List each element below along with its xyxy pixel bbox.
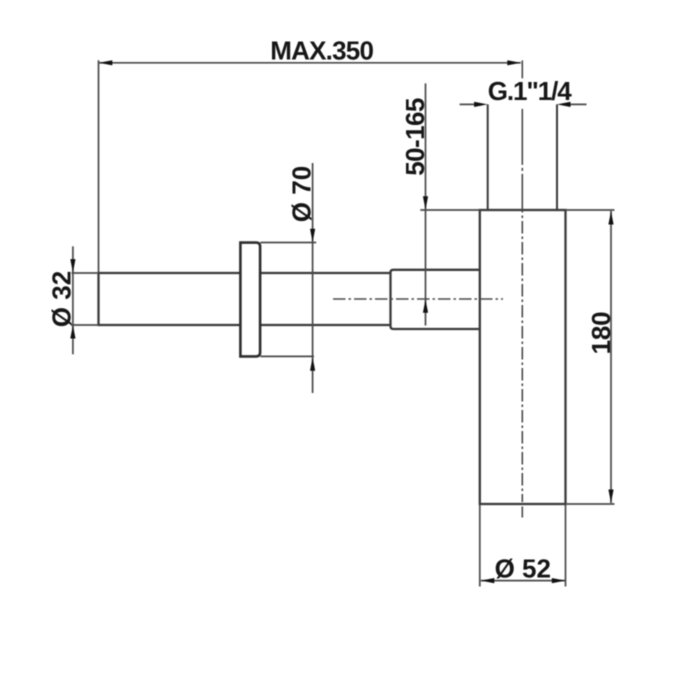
svg-text:MAX.350: MAX.350 — [270, 36, 373, 66]
arrowhead G left — [474, 102, 488, 107]
extension line body top right — [566, 209, 615, 211]
extension line pipe top left — [72, 272, 99, 274]
arrowhead MAX.350 right — [507, 60, 521, 65]
dimension line MAX.350 — [99, 62, 521, 64]
dimension line diameter 52 — [481, 580, 566, 582]
inlet tube left edge — [487, 104, 489, 210]
arrowhead 180 top — [608, 211, 613, 225]
label diameter 70 — [286, 166, 316, 222]
svg-text:50-165: 50-165 — [400, 98, 430, 176]
extension line body left lower — [479, 505, 481, 587]
label MAX.350 — [270, 36, 373, 66]
svg-text:G.1"1/4: G.1"1/4 — [488, 76, 572, 106]
arrowhead 50-165 down — [423, 196, 428, 210]
wall pipe top edge right segment — [260, 272, 390, 274]
extension line pipe bottom left — [71, 324, 99, 326]
wall pipe left end edge — [97, 272, 99, 326]
label diameter 52 — [495, 554, 551, 584]
label 180 — [586, 312, 616, 355]
label 50-165 — [400, 98, 430, 176]
vertical centerline tube segment — [521, 109, 523, 210]
extension line body top left — [420, 209, 480, 211]
label diameter 32 — [47, 271, 77, 327]
svg-text:180: 180 — [586, 312, 616, 355]
compression nut coupling — [391, 270, 480, 329]
arrowhead dia70 bottom — [310, 357, 315, 371]
vertical centerline upper solid segment — [521, 60, 523, 78]
dimension line diameter 32 — [72, 246, 74, 354]
arrowhead 50-165 up — [423, 299, 428, 313]
arrowhead dia52 left — [481, 578, 495, 583]
vertical centerline body segment — [521, 210, 523, 502]
wall pipe top edge left segment — [99, 272, 241, 274]
dimension line diameter 70 — [312, 163, 314, 393]
arrowhead MAX.350 left — [99, 60, 113, 65]
arrowhead G right — [557, 102, 571, 107]
vertical centerline stub below body — [521, 507, 523, 518]
arrowhead dia32 bottom — [70, 325, 75, 339]
arrowhead 180 bottom — [608, 490, 613, 504]
svg-text:Ø 52: Ø 52 — [495, 554, 551, 584]
dimension line G.1"1/4 left part — [460, 103, 477, 105]
extension line body right lower — [565, 505, 567, 587]
arrowhead dia70 top — [310, 229, 315, 243]
dimension line 180 — [610, 211, 612, 503]
wall flange rosette — [240, 243, 260, 357]
inlet tube right edge — [556, 104, 558, 210]
wall pipe bottom edge right segment — [260, 324, 390, 326]
horizontal centerline pipe axis — [333, 298, 503, 300]
svg-text:Ø 70: Ø 70 — [286, 166, 316, 222]
dimension line 50-165 — [425, 83, 427, 325]
extension line flange top — [261, 242, 317, 244]
extension line flange bottom — [261, 355, 315, 357]
dimension line G.1"1/4 right part — [568, 103, 587, 105]
label G.1"1/4 — [488, 76, 572, 106]
arrowhead dia32 top — [70, 259, 75, 273]
svg-text:Ø 32: Ø 32 — [47, 271, 77, 327]
wall pipe bottom edge left segment — [99, 324, 241, 326]
extension line left (wall end) — [98, 60, 100, 272]
trap body — [480, 210, 566, 504]
extension line body bottom right — [566, 503, 615, 505]
arrowhead dia52 right — [552, 578, 566, 583]
